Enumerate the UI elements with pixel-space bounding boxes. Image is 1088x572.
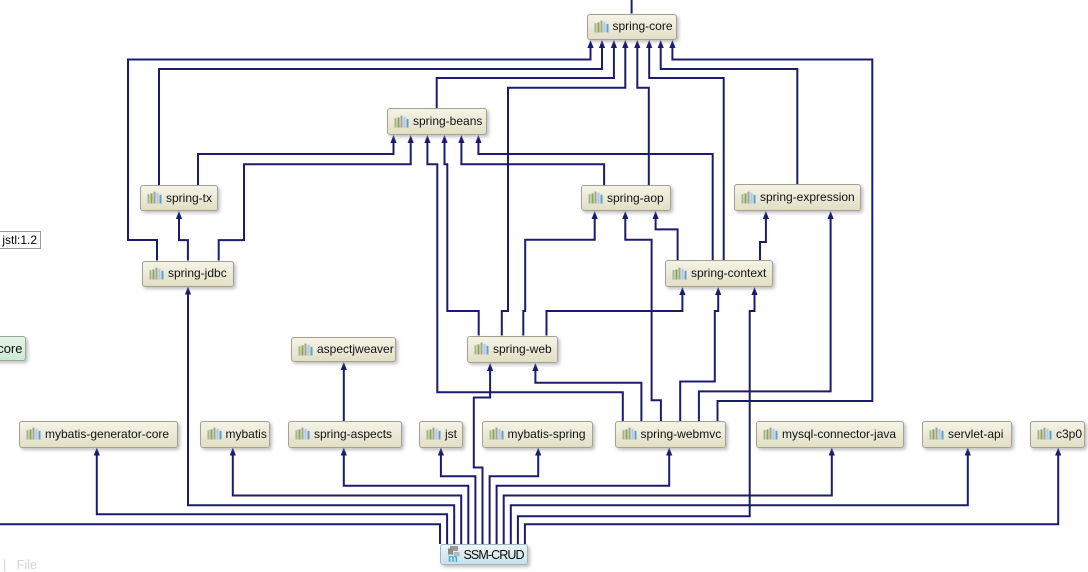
svg-text:m: m bbox=[448, 553, 458, 564]
